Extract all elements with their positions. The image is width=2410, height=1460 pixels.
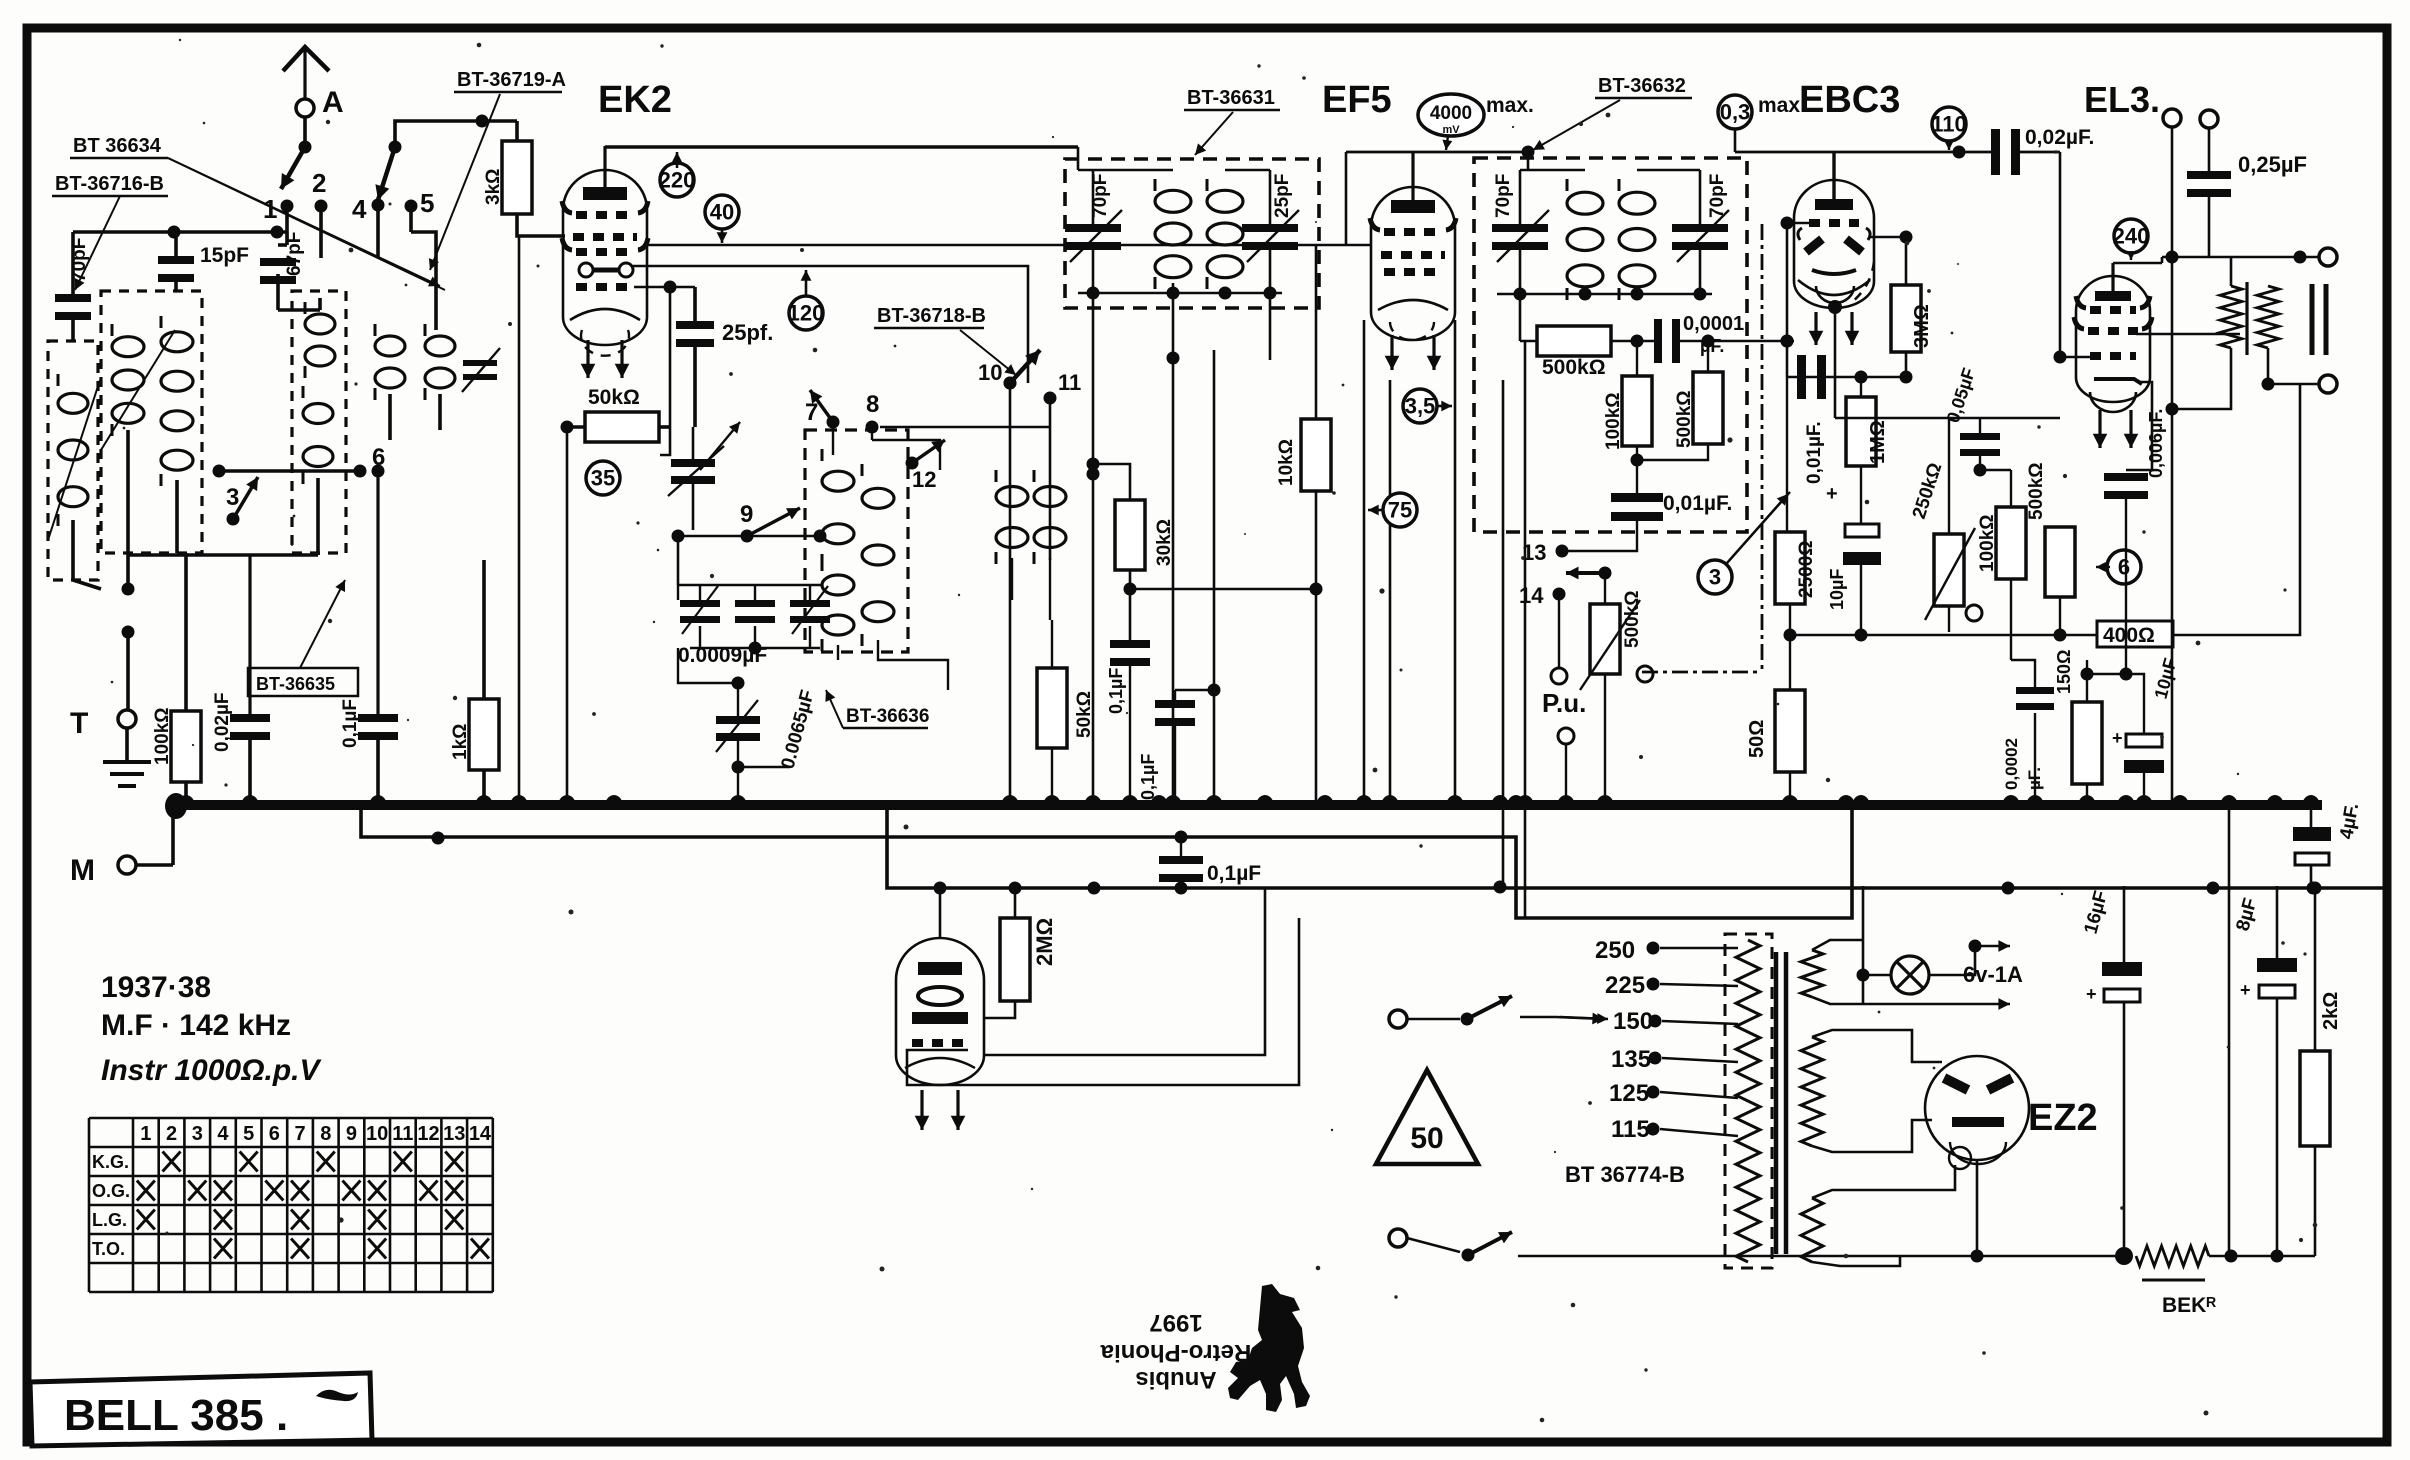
svg-text:0,006µF.: 0,006µF. [2146,409,2166,478]
EBC3 bottom [1798,280,1870,295]
circled 0,3 max [1718,95,1752,129]
resistor 500kOhm AVC2 [1693,372,1723,444]
potentiometer 250kOhm [1934,534,1964,606]
EK2 filament arrows [586,340,589,378]
oscillator coil lower [303,404,333,424]
svg-text:0,1µF: 0,1µF [1207,862,1261,885]
EL3 g2 grid [2090,306,2136,314]
svg-text:9: 9 [346,1123,357,1145]
trimmer cap [463,360,497,366]
rectifier output wire [1518,1255,2124,1258]
EK2 anode [583,187,627,200]
svg-text:3: 3 [226,484,239,511]
svg-text:50Ω: 50Ω [1746,720,1768,758]
svg-text:T: T [70,707,88,740]
svg-text:10: 10 [366,1123,388,1145]
speaker terminal bottom [2319,375,2337,393]
svg-text:120: 120 [788,300,825,325]
transformer bottom wire [1747,1256,1749,1262]
svg-text:8: 8 [866,391,879,418]
wire EK2 g1 y287 [634,286,670,289]
EBC3 grid return riser [1781,217,1794,230]
trimmer 0.0065uF [722,648,724,690]
svg-text:max: max [1758,94,1800,117]
wire EL3 g1 in [2054,351,2067,364]
secondary heater winding [1801,950,1823,997]
IF2 cap 70pF right [1672,224,1728,232]
svg-text:BT-36635: BT-36635 [256,674,335,694]
potentiometer 500kOhm [1590,604,1620,674]
wire y377 [1787,376,1906,379]
svg-text:0,01µF.: 0,01µF. [1804,421,1825,484]
svg-text:0,1µF: 0,1µF [340,699,361,748]
svg-text:3: 3 [192,1123,203,1145]
svg-text:7: 7 [294,1123,305,1145]
electrolytic 10uF [1845,524,1879,537]
vertical feeds right [2228,810,2231,1256]
wire M to bus [171,806,175,865]
EK2 grids [576,211,634,219]
svg-text:4: 4 [352,194,367,224]
ground [125,728,129,762]
svg-text:3kΩ: 3kΩ [483,169,504,205]
circled 40 [705,195,739,229]
switch arm 14 [1599,567,1612,580]
wire below bus B (heater) [361,806,1852,918]
svg-text:250: 250 [1595,937,1635,964]
EZ2 anodes [1944,1078,2012,1090]
capacitor 0,0002uF [2016,687,2054,694]
svg-text:14: 14 [469,1123,492,1145]
trimmer caps 0.0009uF [680,600,720,607]
junction dots below bus [432,832,445,845]
svg-text:25pF: 25pF [1272,174,1293,218]
svg-text:2: 2 [312,168,326,198]
circled 240 [2114,219,2148,253]
resistor 100kOhm out [1996,507,2026,579]
wire EK2 y266 [633,266,1028,383]
wire 0,1uF lower [1159,856,1203,864]
electrolytic 10uF 2 [2126,734,2162,747]
svg-text:125: 125 [1609,1080,1649,1107]
svg-text:K.G.: K.G. [92,1152,129,1172]
resistor 2MOhm [1000,918,1030,1001]
osc coil C [862,488,894,508]
svg-text:+: + [1826,483,1838,505]
svg-text:70pF: 70pF [1707,174,1728,218]
resistor 10kOhm [1301,419,1331,491]
svg-text:25pf.: 25pf. [722,320,773,345]
speaker terminal top [2319,248,2337,266]
bus left end blob [165,793,187,819]
EL3 cathode shelf [2094,379,2142,384]
svg-text:O.G.: O.G. [92,1181,130,1201]
electrolytic 4uF [2293,827,2331,841]
circled 3 [1698,560,1732,594]
resistor 100kOhm AVC [1622,376,1652,446]
svg-text:40: 40 [710,199,734,224]
svg-text:Instr 1000Ω.p.V: Instr 1000Ω.p.V [101,1054,323,1087]
EBC3 anode [1815,199,1853,210]
svg-text:70pF: 70pF [1493,174,1514,218]
tuning indicator tube [896,938,984,1085]
wire EF5 anode rail [1346,151,1528,154]
wire 8 to coils [871,427,873,440]
svg-text:EL3.: EL3. [2084,79,2160,120]
vertical x1214 [1213,350,1216,800]
svg-text:135: 135 [1611,1046,1651,1073]
trimmer cap osc [671,459,715,467]
svg-text:1MΩ: 1MΩ [1867,420,1889,464]
svg-text:3,5: 3,5 [1405,393,1436,418]
wire osc out [878,640,948,690]
coil pair IF trap [996,487,1028,507]
capacitor 0,01uF EBC3 [1797,355,1806,399]
svg-text:BT-36632: BT-36632 [1598,75,1686,97]
capacitor 0,0001uF [1654,319,1662,363]
IF2 cap 70pF left [1492,224,1548,232]
horse logo [1228,1284,1310,1412]
wire EL3 cathode [2123,566,2125,568]
svg-text:110: 110 [1931,111,1967,136]
ground bus wire [170,800,2322,810]
svg-text:115: 115 [1611,1116,1650,1143]
svg-text:max.: max. [1486,94,1534,117]
svg-text:0.0009µF: 0.0009µF [678,644,767,667]
svg-text:12: 12 [417,1123,439,1145]
wire y635 [1789,634,2097,637]
circled 35 [586,461,620,495]
svg-text:BT 36634: BT 36634 [73,135,162,157]
svg-text:11: 11 [1058,370,1081,395]
wire 30k bottom [1129,570,1132,640]
svg-text:100kΩ: 100kΩ [1603,392,1624,450]
indicator filament arrows [920,1090,923,1130]
svg-text:9: 9 [740,501,753,528]
wire indicator grid [907,918,1299,1085]
wire EL3 screen out [2136,333,2240,336]
svg-text:0,25µF: 0,25µF [2238,152,2307,177]
wire y121 to 3k [395,121,517,147]
resistor 500kOhm AVC [1537,326,1611,356]
resistor 50kOhm 2 [1037,668,1067,748]
svg-text:6: 6 [269,1123,280,1145]
circled 220 [660,163,694,197]
wire EL3 anode to speaker [2113,257,2320,263]
wire switch4 riser [376,205,380,257]
EBC3 cathode [1812,270,1856,274]
antenna coil dashed box [48,341,98,580]
svg-text:15pF: 15pF [200,244,249,267]
node A terminal [296,99,314,117]
coil pair mid [375,336,405,356]
svg-text:50kΩ: 50kΩ [588,386,640,409]
wire top antenna row [73,230,287,234]
EL3 cathode network [2126,382,2152,470]
heater wires [1857,969,1870,982]
circled 110 [1932,107,1966,141]
capacitor 0,05uF [1960,433,2000,440]
circled 6 [2107,550,2141,584]
svg-text:Retro-Phonia: Retro-Phonia [1100,1339,1251,1366]
svg-text:L.G.: L.G. [92,1210,127,1230]
circled 4000 max [1418,94,1484,136]
wire osc tank [660,427,670,455]
svg-text:240: 240 [2113,223,2150,248]
svg-text:BELL 385 .: BELL 385 . [64,1391,288,1440]
svg-text:BT 36774-B: BT 36774-B [1565,1162,1685,1187]
tuning coil L1 [112,337,144,357]
resistor 1MOhm [1846,397,1876,466]
speaker field coil [2220,286,2242,348]
svg-text:EK2: EK2 [598,79,672,121]
svg-text:1937·38: 1937·38 [101,971,211,1004]
osc coil A [822,471,854,491]
transformer core [1776,952,1786,1254]
svg-text:500kΩ: 500kΩ [1622,590,1643,648]
EL3 g1 grid [2090,352,2136,360]
coil L2 [161,332,193,352]
circled 120 [789,296,823,330]
osc coil B [822,575,854,595]
wire EK2 screen y245 [647,244,1372,247]
wire EBC3 g2 net [1835,417,2060,419]
svg-text:3: 3 [1709,564,1721,589]
input coil dashed box 1 [101,291,202,553]
svg-text:M.F · 142 kHz: M.F · 142 kHz [101,1009,291,1042]
antenna [283,47,329,71]
svg-text:EBC3: EBC3 [1799,79,1900,121]
EF5 bottom [1378,300,1448,310]
tube EZ2 [1925,1056,2029,1160]
triangle 50Hz [1376,1070,1478,1164]
Anubis Retro-Phonia logo [1100,1309,1251,1393]
switch contact 1-2 arm [299,141,312,154]
contact 6 [354,465,367,478]
svg-text:Anubis: Anubis [1135,1366,1216,1393]
wire EF5 cathode down [1389,380,1392,800]
wire EBC3 anode rail [1734,130,1737,152]
svg-text:BT-36636: BT-36636 [846,706,929,727]
pilot lamp 6v-1A [1891,956,1929,994]
mains switch upper [1389,1010,1407,1028]
speaker magnet [2312,284,2326,355]
svg-text:10: 10 [978,360,1002,385]
svg-text:4: 4 [217,1123,229,1145]
tank wire [678,535,820,538]
capacitor 0,006uF [2104,473,2148,481]
svg-text:2: 2 [166,1123,177,1145]
label BT-36635 [248,668,358,696]
svg-text:1997: 1997 [1149,1309,1202,1336]
capacitor 15pF [158,256,194,264]
svg-text:75: 75 [1388,497,1412,522]
svg-text:0,1µF: 0,1µF [1138,754,1158,800]
EF5 filament arrows [1390,335,1393,370]
wire y555 [128,553,318,557]
svg-text:mV: mV [1442,124,1460,136]
svg-text:220: 220 [659,167,696,192]
wire grid to 50k [669,287,672,427]
svg-text:BT-36716-B: BT-36716-B [55,173,164,195]
svg-text:3MΩ: 3MΩ [1911,304,1933,348]
svg-text:500kΩ: 500kΩ [2026,462,2047,520]
svg-text:10kΩ: 10kΩ [1276,439,1297,486]
contact 4 [372,199,385,212]
resistor 100kOhm antenna [171,711,201,782]
wire indicator anode [939,888,942,938]
IF1 primary coil [1155,190,1191,212]
wire y427 right [880,426,1050,429]
EL3 g3 grid [2088,327,2138,335]
circled 3,5 EF5 [1403,389,1437,423]
svg-text:+: + [2086,984,2097,1004]
phono shield dash-dot line [1761,224,1764,672]
svg-text:11: 11 [392,1123,413,1145]
contact 5 [405,200,418,213]
wire coupling to EL3 [2059,152,2062,357]
IF2 top rail [1520,169,1585,172]
IF1 cap 25pF [1242,224,1298,232]
resistor 1kOhm [469,699,499,770]
svg-text:14: 14 [1519,583,1544,608]
EBC3 grid [1809,219,1859,227]
svg-text:2kΩ: 2kΩ [2320,992,2342,1030]
svg-text:225: 225 [1605,972,1645,999]
wave-change table [89,1118,493,1292]
svg-text:M: M [70,854,95,887]
contact 1 [281,200,294,213]
resistor 50Ohm [1775,690,1805,772]
svg-text:BT-36718-B: BT-36718-B [877,305,986,327]
capacitor 0,02uF [230,714,270,722]
wire EK2 anode top [605,145,1078,149]
contact 2 [315,200,328,213]
wire antenna to switch [303,117,307,147]
svg-text:0,0002: 0,0002 [2002,738,2021,790]
resistor 3kOhm [502,141,532,214]
EF5 anode [1391,200,1435,213]
IF2 bottom rail [1497,293,1712,296]
wire indicator to AVC [984,888,1265,1055]
capacitor 25pf [676,321,714,329]
BELL 385 label box [30,1373,372,1446]
wire speaker return [2230,348,2233,384]
resistor 150Ohm [2072,702,2102,784]
svg-text:35: 35 [591,465,615,490]
scan speckles [800,248,804,252]
wire y589 [1130,588,1316,591]
capacitor 0,01uF AVC [1611,493,1663,502]
svg-text:5: 5 [420,188,434,218]
EF5 grids [1384,228,1442,236]
wire AVC left [1269,293,1272,360]
svg-text:1: 1 [140,1123,151,1145]
contact 7 [827,416,840,429]
bus junction bumps [177,795,195,806]
EL3 anode [2095,291,2131,301]
wire AVC join [1636,446,1638,493]
EZ2 wiring [1976,1160,1979,1256]
IF1 vertical drops [1092,293,1095,800]
circled 75 [1383,493,1417,527]
svg-text:10µF: 10µF [1827,569,1847,610]
svg-text:0,02µF.: 0,02µF. [2025,126,2094,149]
svg-text:BT-36719-A: BT-36719-A [457,69,566,91]
contact 9 [741,530,754,543]
svg-text:4000: 4000 [1430,103,1472,124]
EBC3 cathode lead [1828,300,1842,314]
transformer dashed box [1725,934,1772,1268]
svg-text:6: 6 [2118,554,2130,579]
contact 3 [227,513,240,526]
svg-text:1kΩ: 1kΩ [450,724,471,760]
wire AVC vertical pair [1524,341,1527,918]
switch lower [1389,1229,1407,1247]
antenna coil [58,393,88,413]
svg-text:EF5: EF5 [1322,79,1392,121]
EL3 filament arrows [2098,410,2101,448]
oscillator transformer dashed box [805,430,908,652]
resistor 2500Ohm [1775,532,1805,604]
svg-text:13: 13 [443,1123,465,1145]
svg-text:EZ2: EZ2 [2028,1097,2098,1139]
IF transformer 1 dashed box [1065,159,1319,308]
svg-text:12: 12 [912,467,936,492]
wire 10 down [1009,383,1012,800]
oscillator coil upper [305,314,335,334]
EL3 top terminals [2163,109,2181,127]
IF1 cap 70pF [1065,224,1121,232]
svg-text:150: 150 [1613,1008,1653,1035]
svg-text:+: + [2240,980,2251,1000]
secondary HV winding [1801,1037,1823,1146]
capacitor 0,1uF input [358,714,398,722]
resistor BEKR [2136,1246,2209,1266]
EK2 lower grid [576,283,634,291]
wire osc section vertical [434,302,438,330]
boxed 400Ohm [2097,621,2173,647]
contact 8 [866,421,879,434]
resistor 3MOhm [1891,285,1921,352]
svg-text:400Ω: 400Ω [2103,624,2155,647]
svg-text:0,1µF: 0,1µF [1106,668,1126,714]
wire osc coil [278,308,320,312]
capacitor 67pF [260,258,296,266]
EK2 cathode [579,263,593,277]
svg-text:500kΩ: 500kΩ [1674,390,1695,448]
AVC network [1519,294,1522,341]
svg-text:0,3: 0,3 [1720,99,1751,124]
IF1 secondary coil [1207,190,1243,212]
wire L1 bottom [126,430,130,589]
svg-text:+: + [2112,728,2123,748]
svg-text:2500Ω: 2500Ω [1796,540,1817,598]
svg-text:P.u.: P.u. [1542,688,1586,718]
IF1 bottom rail [1078,292,1282,295]
capacitor 0,02uF [1991,129,2000,175]
secondary rect heater winding [1801,1198,1823,1262]
wire 400 right [2173,384,2300,635]
contact 12 [906,457,919,470]
svg-text:0,02µF: 0,02µF [212,692,233,752]
EK2 bottom [570,309,640,320]
svg-text:T.O.: T.O. [92,1239,125,1259]
svg-text:BEKᴿ: BEKᴿ [2162,1294,2216,1317]
svg-text:100kΩ: 100kΩ [152,707,173,765]
wire coil box to 100k [175,480,179,553]
contact 11 [1044,392,1057,405]
